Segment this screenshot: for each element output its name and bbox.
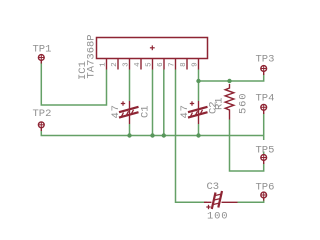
pin 5	[152, 59, 154, 70]
svg-text:TP1: TP1	[33, 43, 52, 55]
svg-text:TP2: TP2	[33, 108, 52, 120]
wire pin6 to GND	[163, 70, 165, 136]
svg-text:7: 7	[169, 62, 177, 67]
wire pin9 to node	[198, 70, 200, 82]
wire TP4 down to TP5	[263, 114, 265, 141]
svg-text:TP5: TP5	[256, 144, 275, 156]
test point TP4	[261, 104, 267, 114]
capacitor C2	[188, 101, 208, 124]
junction C1-GND	[127, 133, 131, 137]
wire R1 bottom to TP5	[230, 120, 264, 172]
wire TP6 to C3	[238, 200, 264, 202]
test point TP5	[261, 155, 267, 164]
test point TP2	[38, 122, 44, 131]
wire pin7 down to C3	[176, 70, 208, 203]
test point TP6	[261, 192, 267, 200]
op IC1 box	[97, 38, 208, 59]
svg-text:4: 4	[134, 62, 142, 67]
svg-text:560: 560	[238, 93, 250, 114]
pin 7	[175, 59, 177, 70]
svg-text:47: 47	[179, 104, 191, 118]
IC1 plus mark	[150, 45, 155, 50]
resistor R1	[225, 84, 234, 120]
capacitor C3	[204, 191, 238, 209]
svg-text:1: 1	[100, 62, 108, 67]
svg-text:TA7368P: TA7368P	[86, 34, 98, 78]
svg-text:8: 8	[180, 62, 188, 67]
junction R1 top node	[227, 79, 231, 83]
pin 9	[198, 59, 200, 70]
svg-text:5: 5	[146, 62, 154, 67]
test point TP3	[261, 66, 267, 75]
wire TP1 to pin1	[41, 63, 106, 106]
wire node to TP3	[199, 75, 264, 82]
svg-text:R1: R1	[214, 97, 226, 110]
svg-text:3: 3	[123, 62, 131, 67]
capacitor C1	[119, 101, 139, 124]
pin 1	[106, 59, 108, 70]
pin 8	[186, 59, 188, 70]
svg-text:C1: C1	[140, 105, 152, 118]
svg-text:100: 100	[207, 210, 228, 222]
pin 2	[117, 59, 119, 70]
junction pin9 node	[196, 79, 200, 83]
wire net GND horizontal from TP2	[41, 131, 263, 136]
pin 6	[163, 59, 165, 70]
wire C2 branch	[198, 81, 200, 101]
wire pin3 to C1 to GND	[129, 70, 131, 102]
junction pin5-GND	[150, 133, 154, 137]
svg-text:TP6: TP6	[256, 181, 275, 193]
test point TP1	[38, 55, 44, 64]
pin 4	[140, 59, 142, 70]
pin 3	[129, 59, 131, 70]
svg-text:2: 2	[111, 62, 119, 67]
svg-text:6: 6	[157, 62, 165, 67]
svg-text:C3: C3	[207, 181, 220, 193]
svg-text:47: 47	[110, 104, 122, 118]
junction C2-GND	[196, 133, 200, 137]
svg-text:9: 9	[192, 62, 200, 67]
junction pin6-GND	[162, 133, 166, 137]
svg-text:TP3: TP3	[256, 53, 275, 65]
wire pin5 to GND	[152, 70, 154, 136]
svg-text:TP4: TP4	[256, 92, 275, 104]
